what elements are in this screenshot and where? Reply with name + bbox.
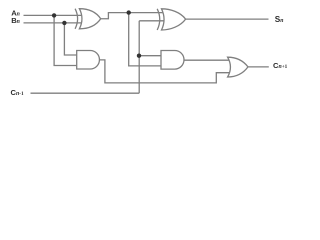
wire AND1 output to OR lower input (99, 60, 231, 83)
xor gate XOR1 (A xor B) (75, 9, 101, 29)
wire Cn-1 riser vertical (138, 21, 140, 93)
xor gate XOR2 (sum = XOR1 xor Cn-1) (157, 9, 185, 30)
wire XOR1 output step to XOR2 top input (101, 13, 166, 19)
junction dot on XOR1 output (127, 10, 131, 14)
wire B input (24, 22, 83, 24)
wire XOR1 output tap down to AND2 lower input (129, 13, 162, 66)
junction dot on A wire (52, 13, 56, 17)
and gate AND2 (XOR1 and Cn-1) (161, 51, 184, 70)
wire Cn-1 input horizontal (31, 92, 140, 94)
wire Cn-1 tap to AND2 upper input (139, 55, 162, 57)
or gate OR1 (carry out) (228, 57, 248, 77)
wire A input (24, 14, 83, 16)
wire Sn output (186, 18, 269, 20)
wire Cn+1 output (248, 66, 269, 68)
wire B tap to AND1 upper input (64, 23, 77, 55)
wire AND2 output to OR upper input (184, 59, 231, 61)
wire XOR2 lower input from Cn-1 riser (139, 20, 166, 22)
junction dot on B wire (62, 21, 66, 25)
junction dot on Cn-1 riser (137, 54, 141, 58)
wire A tap to AND1 lower input (54, 15, 77, 65)
and gate AND1 (A and B) (77, 51, 100, 70)
